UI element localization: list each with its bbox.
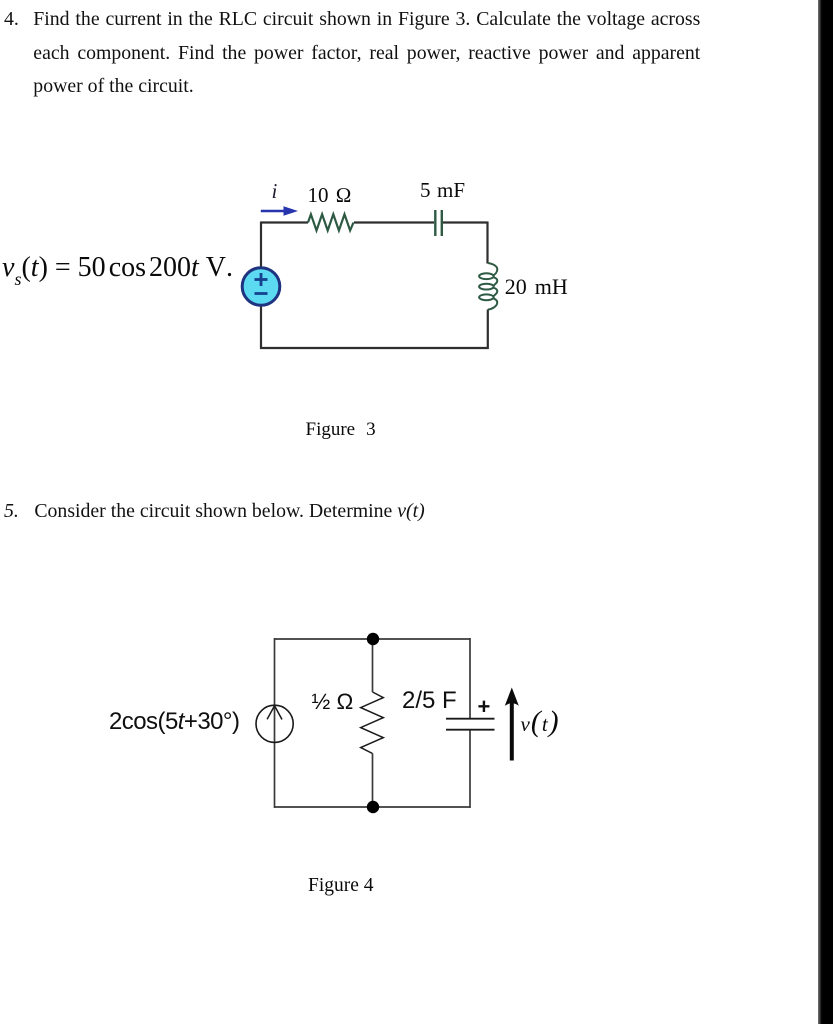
wire: fig3 top-left segment bbox=[261, 221, 308, 223]
junction node top bbox=[367, 633, 379, 645]
figure 4 caption bbox=[308, 875, 374, 897]
current source circle bbox=[256, 705, 293, 742]
wire: fig4 middle branch top bbox=[372, 639, 374, 692]
wire: fig4 middle branch bottom bbox=[372, 754, 374, 808]
wire: fig3 top-middle segment (resistor to capacitor) bbox=[354, 221, 434, 223]
inductor L 20 mH bbox=[479, 263, 497, 310]
label 10 ohm bbox=[308, 183, 352, 208]
label i (current) bbox=[272, 179, 278, 204]
resistor R 10 ohm bbox=[308, 214, 354, 230]
wire: fig3 right wire above inductor bbox=[486, 222, 488, 264]
voltage source minus sign bbox=[255, 292, 268, 295]
label 2/5 F bbox=[402, 687, 457, 715]
capacitor C 5 mF bbox=[435, 210, 442, 236]
label v(t) bbox=[521, 706, 560, 739]
voltage source plus sign bbox=[255, 273, 268, 286]
wire: fig4 right wire below capacitor bbox=[469, 730, 471, 808]
wire: fig4 right wire above capacitor bbox=[469, 638, 471, 718]
wire: fig3 bottom wire bbox=[260, 347, 489, 349]
capacitor 2/5 F plates bbox=[446, 719, 495, 730]
label 2cos(5t+30) bbox=[109, 708, 239, 736]
wire: fig3 right wire below inductor bbox=[487, 310, 489, 350]
label plus polarity bbox=[478, 694, 491, 720]
problem 5 line bbox=[4, 500, 425, 523]
label 20 mH bbox=[505, 274, 568, 300]
current arrow i (blue) bbox=[261, 206, 298, 215]
wire: fig4 left wire (runs through source) bbox=[274, 638, 276, 808]
wire: fig3 left wire below source bbox=[260, 306, 262, 350]
resistor half-ohm zigzag bbox=[361, 692, 384, 754]
voltage source VS circle bbox=[242, 268, 280, 306]
problem 4 paragraph bbox=[4, 3, 701, 104]
wire: fig4 bottom wire bbox=[274, 806, 470, 808]
current source arrow barbs bbox=[267, 706, 282, 720]
source label vs(t) = 50cos200t V. bbox=[2, 252, 234, 288]
right black scan bar bbox=[818, 0, 833, 1024]
junction node bottom bbox=[367, 801, 379, 813]
label half ohm bbox=[312, 689, 354, 715]
v(t) reference arrow bbox=[505, 688, 519, 761]
wire: fig3 top-right segment (capacitor to corner) bbox=[443, 221, 488, 223]
wire: fig4 top wire bbox=[274, 638, 470, 640]
label 5 mF bbox=[420, 178, 465, 203]
wire: fig3 left wire above source bbox=[260, 222, 262, 268]
figure 3 caption bbox=[306, 419, 376, 441]
